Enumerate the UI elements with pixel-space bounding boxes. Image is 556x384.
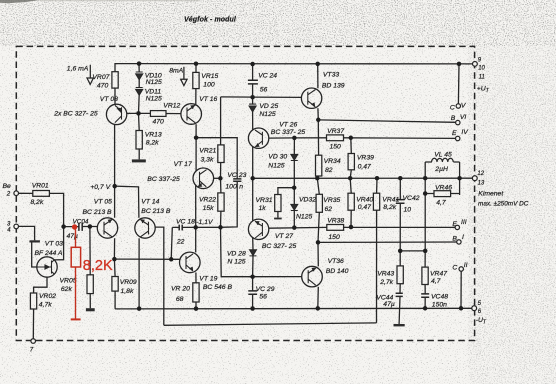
resistor VR22 (218, 193, 224, 211)
red annotation junction dot (72, 224, 77, 229)
capacitor VC42 (396, 200, 405, 204)
junction: output rail / VR41 node (375, 176, 380, 181)
junction: bottom rail / C-II drop (459, 306, 464, 311)
svg-text:470: 470 (97, 83, 109, 90)
wire VR22 bottom to -1,1V node (220, 211, 222, 227)
svg-text:56: 56 (259, 294, 267, 301)
svg-text:n: n (239, 183, 243, 190)
svg-text:VR12: VR12 (163, 102, 180, 109)
capacitor VC04 (79, 223, 82, 231)
svg-text:VR07: VR07 (92, 74, 109, 81)
svg-text:2: 2 (6, 191, 11, 198)
terminal: B (VI) power transistor I (456, 120, 460, 124)
wire C-V terminal drop from top rail (457, 64, 460, 104)
wire B node to VT36 emitter (317, 242, 319, 266)
svg-text:VR05: VR05 (60, 277, 77, 284)
wire VT08 emitter column x114.6 (113, 124, 115, 259)
svg-text:BD 140: BD 140 (326, 268, 349, 275)
svg-text:VT 27: VT 27 (275, 233, 293, 240)
capacitor VC18 (179, 225, 182, 231)
transistor VT14 (135, 218, 155, 238)
junction: output rail / LR box right (457, 176, 462, 181)
svg-text:VI: VI (460, 114, 467, 121)
wire output rail to VR41 (376, 178, 378, 193)
ground bar input 3-4 (30, 240, 40, 242)
end bar below VR31 (274, 218, 282, 220)
svg-text:56: 56 (260, 87, 268, 94)
junction: VR37 / VR39 node (349, 136, 354, 141)
wire VC04 node to VR05 (89, 227, 91, 275)
svg-text:VC 24: VC 24 (258, 73, 277, 80)
svg-text:VR13: VR13 (145, 131, 162, 138)
terminal: E (III) power transistor II (455, 225, 459, 229)
svg-text:VR46: VR46 (435, 184, 452, 191)
terminal: B (I) power transistor II (457, 240, 461, 244)
transistor VT33 (301, 88, 321, 108)
svg-text:BC 327- 25: BC 327- 25 (262, 243, 297, 250)
resistor VR01 (33, 191, 50, 197)
diode VD25 (249, 104, 256, 112)
current arrow 8mA (181, 67, 187, 86)
svg-text:VT 08: VT 08 (100, 96, 118, 103)
junction: VT05 collector / VR09 / base-rail node (112, 257, 117, 262)
svg-text:3,3k: 3,3k (201, 156, 214, 163)
svg-text:VT 17: VT 17 (174, 161, 192, 168)
wire bottom rail (115, 307, 472, 310)
ground bar below VR13 (132, 159, 146, 162)
svg-text:E: E (452, 221, 457, 228)
wire VT19 emitter to VR20 (195, 273, 197, 283)
svg-text:Végfok - modul: Végfok - modul (184, 16, 237, 23)
junction: top rail / VT33 collector node (315, 62, 320, 67)
wire VR01 to node corner (49, 193, 63, 226)
wire VC23 bottom drop (221, 181, 238, 227)
svg-text:VR47: VR47 (430, 270, 447, 277)
wire x294 diode column (293, 138, 295, 228)
red annotation resistor 8,2K (71, 247, 80, 267)
svg-text:VT 14: VT 14 (141, 199, 159, 206)
inductor VL45 coil (432, 158, 454, 162)
svg-text:62: 62 (325, 206, 333, 213)
svg-text:Kimenet: Kimenet (478, 191, 504, 198)
svg-text:I: I (462, 234, 464, 241)
resistor VR37 (327, 135, 344, 141)
svg-text:VR22: VR22 (199, 197, 216, 204)
svg-text:4,7k: 4,7k (39, 301, 52, 308)
wire VR21 bottom to VT17 collector node (220, 163, 222, 179)
wire VR09 stubs (113, 259, 116, 309)
wire VC18 right to -1,1V node (182, 226, 220, 228)
svg-text:12: 12 (477, 171, 484, 177)
resistor VR46 (434, 191, 451, 197)
wire VR38 to E-III terminal (344, 226, 455, 228)
svg-text:150n: 150n (432, 302, 447, 309)
wire VC42 column (399, 178, 401, 251)
svg-text:VR38: VR38 (327, 218, 344, 225)
transistor VT03 jfet (37, 257, 57, 277)
red annotation wire lower (75, 267, 77, 319)
svg-text:62k: 62k (61, 286, 73, 293)
wire VD25 stubs (252, 97, 254, 130)
wire VT19 collector (195, 227, 197, 252)
junction: VT08 base / VD11 / VR13 node (136, 111, 141, 116)
wire VT33 emitter node to VR34 (317, 120, 319, 155)
svg-text:47µ: 47µ (67, 233, 79, 240)
junction: VC04 / VR05 / VT05 base node (88, 224, 93, 229)
svg-text:VR43: VR43 (377, 270, 394, 277)
wire return rail (164, 323, 377, 325)
svg-text:VR39: VR39 (357, 155, 374, 162)
junction: VC18 / VT19 base node (169, 257, 174, 262)
junction: VC42 / VR43 node (398, 249, 403, 254)
wire VR15 top and bottom (195, 64, 197, 104)
resistor VR07 (112, 72, 118, 88)
wire B-VI line (318, 120, 455, 122)
junction: output rail / VR39-VR40 node (348, 176, 353, 181)
wire VT36 collector to bottom rail (317, 287, 320, 309)
wire VR34 to output rail (317, 176, 318, 178)
junction: top rail / VC24 node (250, 62, 255, 67)
wire VT16 emitter node to VC23 corner (196, 138, 237, 179)
svg-text:22: 22 (176, 239, 185, 246)
svg-text:68: 68 (176, 296, 184, 303)
wire VT03 source to VR02 (34, 277, 47, 293)
junction: top rail / VR15 node (194, 61, 199, 65)
wire VR37-right node to VR39 (350, 138, 353, 154)
wire VR43 VC44 column (399, 251, 400, 324)
svg-text:III: III (461, 219, 467, 226)
wire VR39 to output rail (350, 170, 351, 178)
resistor VR41 (373, 193, 379, 210)
wire E rail VT27 base to VR38 (269, 226, 327, 229)
junction: B rail / VR35 / VT36 emitter node (316, 240, 321, 245)
svg-text:VD 28: VD 28 (227, 251, 246, 258)
svg-text:1k: 1k (259, 205, 267, 212)
junction: E rail / VD32 node (292, 225, 297, 230)
junction: VR31 / VD30-VD32 node (292, 185, 297, 190)
svg-text:VT36: VT36 (328, 258, 344, 265)
svg-text:VR02: VR02 (39, 293, 56, 300)
svg-text:-1,1V: -1,1V (196, 219, 214, 226)
svg-text:VT 26: VT 26 (279, 122, 297, 129)
svg-text:100: 100 (203, 82, 215, 89)
svg-text:N125: N125 (146, 95, 162, 102)
svg-text:BC 546 B: BC 546 B (203, 284, 233, 291)
wire VR40 to E rail (350, 210, 352, 227)
junction: bottom rail / VT14 collector (137, 306, 142, 311)
svg-text:N125: N125 (268, 162, 284, 169)
resistor VR21 (218, 145, 224, 163)
wire VC29 to bottom rail (252, 294, 254, 308)
junction: output rail / LR box left (423, 176, 428, 181)
wire x221 drop to VT36 base line (221, 227, 253, 276)
red annotation end bar (71, 318, 81, 320)
svg-text:13: 13 (478, 180, 485, 186)
junction: VD28 / VC29 / VT36 base node (250, 274, 255, 279)
svg-text:N 125: N 125 (227, 259, 245, 266)
svg-text:1,6 mA: 1,6 mA (67, 66, 89, 73)
wire +0,7V jog to VT14 emitter (115, 186, 139, 218)
resistor VR05 (87, 275, 93, 294)
resistor VR09 (112, 277, 118, 292)
wire VD11 node to VR13 to ground (138, 113, 141, 159)
svg-text:VR35: VR35 (323, 197, 340, 204)
transistor VT05 (97, 218, 117, 238)
resistor VR35 (316, 194, 322, 212)
svg-text:N125: N125 (259, 111, 275, 118)
resistor VR31 (275, 195, 281, 212)
wire input 3-4 to ground bar (19, 226, 35, 240)
junction: top rail / VD10 node (137, 61, 142, 66)
svg-text:VR21: VR21 (199, 147, 216, 154)
svg-text:8,2K: 8,2K (83, 258, 113, 274)
svg-text:BC 213 B: BC 213 B (141, 208, 171, 215)
resistor VR12 (150, 111, 166, 117)
wire node segment y251 (400, 250, 425, 252)
capacitor VC24 (248, 80, 258, 84)
svg-text:BD 139: BD 139 (322, 83, 345, 90)
svg-text:max. ±250mV DC: max. ±250mV DC (478, 201, 529, 208)
capacitor VC23 (233, 179, 241, 181)
terminal: E (IV) power transistor I (456, 136, 460, 140)
scanner edge mark top-left (0, 0, 40, 3)
svg-text:VT33: VT33 (323, 72, 339, 79)
wire output rail to VT27 emitter (252, 178, 254, 221)
end bar below VC44 (394, 324, 405, 326)
svg-text:VR34: VR34 (324, 158, 341, 165)
wire C-II terminal to bottom rail (460, 271, 462, 308)
wire VR47 VC48 column (424, 251, 426, 308)
svg-text:15k: 15k (203, 205, 215, 212)
wire VT26 base to VD30 node (269, 137, 295, 139)
svg-text:470: 470 (153, 119, 165, 126)
svg-text:VR15: VR15 (201, 73, 218, 80)
junction: VR47 column top node (423, 249, 428, 254)
terminal: pins 5-6 -UT (472, 306, 477, 311)
junction: output rail / VT26-VT27 emitters (250, 176, 255, 181)
svg-text:1,8k: 1,8k (121, 288, 134, 295)
wire VT33 emitter (317, 108, 319, 120)
junction: VT26 base / VD30 node (292, 136, 297, 141)
junction: VR01 / VT03 drain node (61, 224, 66, 229)
svg-text:150: 150 (330, 144, 342, 151)
transistor VT26 (248, 128, 268, 148)
terminal: pins 12-13 Kimenet output (472, 176, 477, 181)
wire bias column x221 upper (220, 97, 222, 145)
junction: output rail / VC42 node (398, 176, 403, 181)
resistor VR38 (327, 225, 344, 231)
svg-text:VR31: VR31 (256, 197, 273, 204)
svg-text:4,7: 4,7 (431, 278, 441, 285)
wire VT27 collector to VD28 (252, 238, 254, 250)
wire VR07 to VT08 collector (114, 88, 116, 105)
wire VR31 top hook (278, 188, 294, 195)
diode VD30 (291, 154, 298, 160)
wire output rail (253, 177, 473, 179)
wire VT26 emitter to output rail (252, 147, 254, 179)
transistor VT08 (106, 104, 126, 124)
svg-text:VR40: VR40 (356, 196, 373, 203)
svg-text:BC 337-25: BC 337-25 (147, 176, 180, 183)
svg-text:VC 18: VC 18 (176, 218, 195, 225)
svg-text:VL 45: VL 45 (434, 152, 452, 159)
terminal: input pins 3-4 (14, 224, 19, 229)
resistor VR15 (193, 72, 199, 88)
dashed module border (16, 46, 474, 340)
wire LR box right vertical (459, 162, 461, 195)
wire VD10 VD11 chain (138, 64, 141, 114)
junction: E rail / VR40 node (349, 225, 354, 230)
svg-text:N125: N125 (146, 79, 162, 86)
svg-text:VR 20: VR 20 (171, 285, 190, 292)
junction: top rail / C-V drop node (457, 62, 462, 67)
resistor VR34 (316, 155, 322, 176)
svg-text:VT 16: VT 16 (199, 96, 217, 103)
junction: bottom rail / VC29 (250, 306, 255, 311)
diode VD10 (136, 72, 143, 80)
capacitor VC48 (421, 294, 429, 297)
transistor VT19 (180, 252, 201, 273)
svg-text:C: C (452, 265, 457, 272)
svg-text:82: 82 (325, 167, 333, 174)
svg-text:2µH: 2µH (434, 166, 448, 173)
wire VR37 to E-IV terminal (344, 137, 456, 140)
wire B rail to B-I terminal (318, 241, 457, 243)
transistor VT16 (181, 104, 202, 125)
terminal: pins 9-10-11 +UT (473, 62, 478, 67)
terminal: pin 7 (31, 339, 36, 344)
svg-text:Be: Be (3, 183, 12, 190)
wire output rail to VR35 (317, 178, 319, 194)
wire VT17 collector (214, 177, 221, 179)
wire LR box top with coil leads (425, 161, 459, 163)
wire VD30 node to VR37 (294, 137, 326, 139)
wire VT17 base drop (195, 138, 197, 172)
svg-text:B: B (451, 115, 456, 122)
wire VT03 gate (32, 242, 37, 267)
svg-text:VC: VC (227, 172, 237, 179)
svg-text:100: 100 (225, 183, 237, 190)
svg-text:0,47: 0,47 (358, 163, 371, 170)
svg-text:E: E (452, 130, 457, 137)
wire VR20 to bottom rail (195, 302, 197, 309)
current arrow 1,6mA (87, 65, 93, 85)
svg-text:VC48: VC48 (431, 294, 448, 301)
wire VC24 stubs (252, 64, 254, 97)
svg-text:BC 337- 25: BC 337- 25 (271, 129, 306, 136)
resistor VR20 (193, 283, 199, 302)
terminal: C (II) power transistor II (459, 267, 463, 271)
svg-text:VT 19: VT 19 (199, 275, 217, 282)
svg-text:2,7k: 2,7k (379, 279, 393, 286)
junction: VT33 base / VD25 / VC24 node (250, 95, 255, 100)
resistor VR13 (136, 131, 142, 150)
diode VD32 (291, 204, 298, 210)
junction: output rail / VR34-VR35 node (315, 176, 320, 181)
wire VR41 down to return rail riser (376, 210, 378, 323)
junction: VT16 emitter / VT17 base node (194, 135, 199, 140)
svg-text:10: 10 (478, 66, 485, 72)
wire VT14 base drop x164 (155, 227, 164, 325)
wire VT33 collector from top rail (317, 64, 319, 88)
wire VT17 emitter drop (195, 186, 197, 228)
svg-text:B: B (452, 235, 457, 242)
svg-text:VT 05: VT 05 (94, 198, 112, 205)
wire LR box left vertical (424, 162, 426, 251)
junction: VR22 bottom node (218, 225, 223, 230)
junction: VT17 collector / VR21 / VR22 node (218, 176, 223, 181)
svg-text:VD 25: VD 25 (259, 103, 278, 110)
svg-text:VC 29: VC 29 (256, 286, 275, 293)
wire VT03 drain riser (54, 227, 64, 260)
diode VD28 (250, 250, 257, 256)
wire input to VR01 (19, 192, 33, 194)
wire VC18 left plate drop to VT19 base node (171, 227, 179, 259)
svg-text:II: II (464, 262, 468, 269)
wire VT17 collector node to VR22 (220, 178, 222, 193)
wire VT36 base (253, 276, 302, 278)
svg-text:8,2k: 8,2k (383, 204, 396, 211)
junction: VR46 left lead node (423, 191, 428, 196)
wire VR46 leads (425, 193, 459, 195)
svg-text:8,2k: 8,2k (146, 139, 159, 146)
svg-text:+0,7 V: +0,7 V (90, 184, 111, 191)
svg-text:23: 23 (238, 172, 247, 179)
svg-text:VR41: VR41 (382, 196, 399, 203)
terminal: C (V) power transistor I (456, 104, 460, 108)
junction: VT17 emitter / VC18 / VT19 collector node (193, 225, 198, 230)
svg-text:VT 03: VT 03 (45, 241, 63, 248)
svg-text:0,47: 0,47 (358, 204, 371, 211)
diode VD11 (136, 88, 143, 96)
resistor VR39 (348, 154, 354, 170)
svg-text:47µ: 47µ (383, 301, 395, 308)
end bar below VR05 (86, 308, 95, 311)
wire VT16 emitter (195, 124, 197, 138)
terminal: input Be pin 2 (14, 191, 19, 196)
junction: VT33 emitter / B-VI node (316, 118, 321, 123)
svg-text:8mA: 8mA (169, 67, 183, 74)
wire VT14 collector drop (138, 238, 140, 308)
wire node to VC29 (252, 277, 254, 291)
svg-text:VC42: VC42 (403, 195, 420, 202)
resistor VR02 (30, 293, 36, 309)
svg-text:11: 11 (479, 75, 485, 81)
junction: bottom rail / VR20 (194, 306, 199, 311)
transistor VT17 (193, 168, 214, 189)
svg-text:4,7: 4,7 (436, 200, 446, 207)
wire VR35 to B rail node (318, 212, 319, 242)
junction: bottom rail / VT36 collector (316, 306, 321, 311)
wire VC04 node to VT05 base (64, 226, 98, 228)
wire VR31 bottom stub (277, 212, 279, 218)
svg-text:150: 150 (328, 234, 340, 241)
resistor VR40 (348, 193, 354, 210)
wire VR05 bottom to end bar (89, 294, 91, 309)
wire VT08 base to VR12 to VT16 base (127, 112, 181, 114)
svg-text:VD32: VD32 (299, 197, 316, 204)
svg-text:C: C (450, 105, 455, 112)
svg-text:BF 244 A: BF 244 A (35, 250, 63, 257)
svg-text:VR01: VR01 (32, 183, 49, 190)
svg-text:VR09: VR09 (120, 279, 137, 286)
capacitor VC44 (396, 293, 403, 296)
red annotation wire upper (75, 230, 77, 248)
junction: bottom rail / VC48 (423, 306, 428, 311)
svg-text:10: 10 (404, 206, 412, 213)
svg-text:N125: N125 (296, 213, 312, 220)
svg-text:VR37: VR37 (327, 128, 344, 135)
